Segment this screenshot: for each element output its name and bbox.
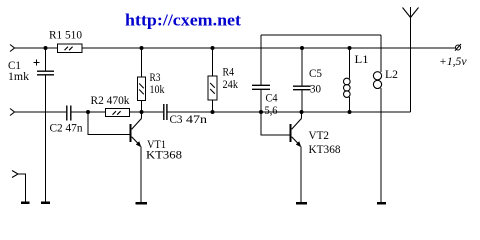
svg-text:C2 47n: C2 47n <box>50 121 83 135</box>
capacitor C5 <box>293 48 311 112</box>
svg-text:L1: L1 <box>355 52 369 66</box>
node R4 top <box>211 46 215 50</box>
transistor VT1 <box>131 112 142 203</box>
node C4 bottom <box>259 110 263 114</box>
node L1 top <box>348 46 352 50</box>
node R3 bottom / C3 node <box>140 110 144 114</box>
capacitor C3 <box>164 104 167 120</box>
wire R2 to C3 node <box>130 111 164 113</box>
svg-text:R2 470k: R2 470k <box>91 93 130 107</box>
wire bus C3 to antenna corner <box>168 111 411 113</box>
transistor VT2 <box>291 112 302 203</box>
node C1/R1 junction <box>44 46 48 50</box>
svg-text:47n: 47n <box>186 112 207 126</box>
svg-text:30: 30 <box>310 82 321 96</box>
svg-text:10k: 10k <box>150 82 165 96</box>
input terminal 1 <box>10 45 15 52</box>
svg-text:1mk: 1mk <box>8 69 29 83</box>
svg-text:http://cxem.net: http://cxem.net <box>125 11 241 30</box>
ground bar under VT1 <box>136 202 147 205</box>
input terminal 2 <box>10 109 15 116</box>
terminal +1,5v <box>455 44 461 51</box>
antenna <box>403 7 419 112</box>
svg-text:KT368: KT368 <box>309 142 341 156</box>
input terminal 3 <box>12 171 26 203</box>
ground bar at input 3 <box>21 201 30 204</box>
svg-text:R1 510: R1 510 <box>49 28 82 42</box>
wire VT1 base lead <box>88 112 130 135</box>
ground bar under VT2 <box>296 202 307 205</box>
node R2/VT1 base junction <box>86 110 90 114</box>
node R3 top <box>140 46 144 50</box>
node R4 bottom <box>211 110 215 114</box>
node C5 top <box>300 46 304 50</box>
resistor R4 <box>208 48 217 112</box>
svg-text:L2: L2 <box>385 67 398 81</box>
wire +1,5v supply rail <box>15 47 455 49</box>
wire input 2 to C2 <box>15 111 67 113</box>
ground bar under L2 <box>377 202 386 205</box>
node L1 bottom <box>348 110 352 114</box>
node C5 bottom / VT2 collector <box>300 110 304 114</box>
svg-text:VT2: VT2 <box>309 128 330 142</box>
svg-text:KT368: KT368 <box>146 148 182 162</box>
svg-text:+1,5v: +1,5v <box>439 54 467 68</box>
inductor L1 <box>344 48 351 112</box>
resistor R1 <box>58 44 82 53</box>
svg-text:C5: C5 <box>309 66 322 80</box>
capacitor C2 <box>67 106 71 121</box>
ground bar under C1 <box>41 201 50 204</box>
wire VT2 base lead <box>261 112 290 135</box>
capacitor C4 <box>252 35 270 112</box>
wire C2 to R2 <box>71 111 105 113</box>
svg-text:5,6: 5,6 <box>265 103 278 117</box>
resistor R3 <box>138 48 146 112</box>
svg-text:C3: C3 <box>170 112 183 126</box>
svg-text:24k: 24k <box>223 77 239 91</box>
capacitor C1 electrolytic <box>34 48 55 203</box>
wire bypass C4 top to L2 top <box>261 34 381 36</box>
resistor R2 <box>106 109 130 117</box>
inductor L2 <box>373 35 381 203</box>
